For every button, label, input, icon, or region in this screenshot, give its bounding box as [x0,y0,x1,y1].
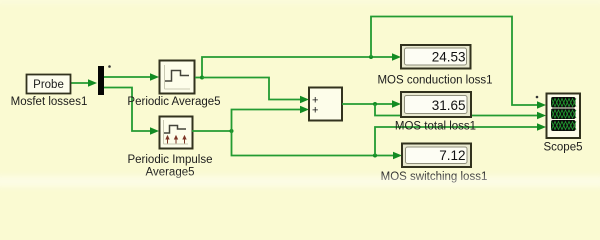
scope block Scope5 [547,94,581,139]
wire branch to sum input 1 [202,78,309,104]
block Periodic Average5 [160,61,195,94]
svg-text:MOS conduction loss1: MOS conduction loss1 [377,75,492,87]
wire sum output to 31.65 display [342,100,401,108]
sample time dot [108,65,111,68]
svg-text:24.53: 24.53 [432,50,466,65]
block Periodic Impulse Average5 [160,117,193,149]
svg-text:Mosfet losses1: Mosfet losses1 [11,96,88,108]
wire top run to scope input 1 [369,17,546,109]
wire branch to scope input 2 [375,104,546,119]
sum block S1 [309,88,342,121]
wire Periodic Average5 output with branch up [195,53,401,79]
svg-text:+: + [312,105,318,117]
svg-text:7.12: 7.12 [439,148,465,163]
display D1 24.53 [401,45,471,69]
bus bar B1 [98,66,104,95]
svg-text:Periodic Average5: Periodic Average5 [127,96,220,108]
wire branch to scope input 3 [373,123,546,157]
svg-text:MOS total loss1: MOS total loss1 [395,121,476,133]
display D3 7.12 [402,144,471,168]
wire bar to Periodic Impulse Average5 [104,88,159,135]
svg-text:Scope5: Scope5 [543,142,582,154]
wire Probe to bar [71,79,97,87]
soft white band artifact [0,176,600,187]
probe P1 [27,75,71,94]
wire bar to Periodic Average5 [104,73,159,81]
wire Periodic Impulse output to sum input 2 [192,106,309,133]
display D2 31.65 [401,92,471,117]
sample time dot scope [536,96,539,99]
svg-text:Probe: Probe [33,79,64,91]
svg-text:Periodic Impulse: Periodic Impulse [127,154,212,166]
svg-text:31.65: 31.65 [432,98,466,113]
wire branch to 7.12 display [232,131,403,159]
